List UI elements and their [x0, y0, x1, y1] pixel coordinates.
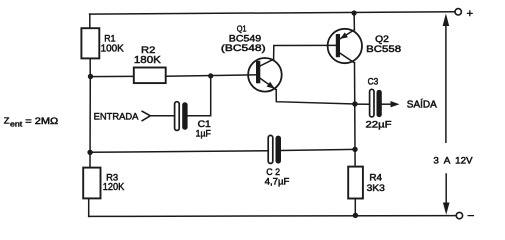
resistor R3 — [83, 168, 100, 199]
svg-text:C1: C1 — [198, 119, 211, 129]
voltage measurement arrow line lower — [445, 174, 447, 205]
svg-text:Q2: Q2 — [375, 34, 389, 44]
svg-text:C3: C3 — [368, 76, 379, 86]
junction dot left vertical / C2 wire — [87, 150, 92, 155]
voltage measurement arrow line upper — [445, 24, 447, 142]
wire input to C1 — [150, 115, 174, 117]
resistor R1 — [81, 28, 99, 58]
wire output node to C3 — [355, 103, 370, 105]
svg-text:R4: R4 — [369, 172, 382, 182]
svg-text:3K3: 3K3 — [367, 183, 385, 193]
svg-text:180K: 180K — [134, 55, 162, 66]
svg-text:ENTRADA: ENTRADA — [94, 112, 139, 123]
wire R2 to Q1 base — [166, 75, 257, 76]
svg-text:–: – — [468, 210, 475, 222]
svg-text:ent: ent — [10, 122, 22, 129]
wire Q1 collector to Q2 base — [274, 45, 336, 59]
svg-text:1µF: 1µF — [196, 129, 212, 139]
junction dot top rail — [352, 10, 357, 15]
wire node A to R2 — [91, 75, 134, 77]
capacitor C2 — [268, 135, 273, 163]
svg-text:= 2MΩ: = 2MΩ — [25, 116, 58, 126]
wire C3 to output arrow — [382, 103, 392, 105]
capacitor C1 — [175, 102, 180, 131]
svg-text:(BC548): (BC548) — [221, 43, 266, 53]
node A junction dot — [88, 74, 93, 79]
svg-text:100K: 100K — [101, 44, 124, 55]
resistor R4 — [348, 167, 363, 199]
C2 node junction dot — [352, 147, 357, 152]
junction dot bottom rail — [353, 213, 358, 218]
resistor R2 — [134, 68, 166, 84]
wire C2 node to C2 — [281, 149, 355, 150]
svg-text:+: + — [467, 8, 473, 20]
svg-text:BC558: BC558 — [366, 44, 401, 55]
+ terminal — [455, 9, 461, 15]
input arrow chevron — [142, 111, 150, 120]
transistor Q2 — [328, 29, 362, 63]
wire Q2 collector down to R4 — [354, 63, 357, 167]
svg-text:22µF: 22µF — [366, 118, 392, 129]
svg-text:3 A 12V: 3 A 12V — [433, 155, 472, 165]
node B junction dot (C1 meets base wire) — [208, 73, 213, 78]
capacitor C3 — [370, 89, 374, 117]
svg-text:4,7µF: 4,7µF — [265, 176, 290, 186]
Zent label — [4, 116, 59, 129]
output node junction dot — [352, 101, 357, 106]
wire left vertical top (rail to R1) — [89, 14, 91, 28]
transistor Q1 — [248, 58, 282, 92]
wire C2 to left vertical — [90, 151, 268, 153]
wire node A down to R3 — [89, 77, 91, 168]
svg-text:120K: 120K — [103, 182, 125, 193]
wire top rail — [90, 12, 455, 14]
wire R4 to bottom rail — [354, 199, 356, 216]
svg-text:Q1: Q1 — [237, 23, 247, 33]
wire Q1 emitter to output node — [276, 90, 355, 104]
- terminal — [456, 212, 462, 218]
wire Q2 emitter to top rail — [353, 12, 355, 30]
wire R1 to node A — [89, 58, 91, 76]
wire C1 to node B — [188, 76, 211, 116]
wire bottom rail — [89, 215, 457, 218]
wire R3 to bottom rail — [88, 198, 90, 216]
svg-text:SAÍDA: SAÍDA — [407, 100, 438, 111]
